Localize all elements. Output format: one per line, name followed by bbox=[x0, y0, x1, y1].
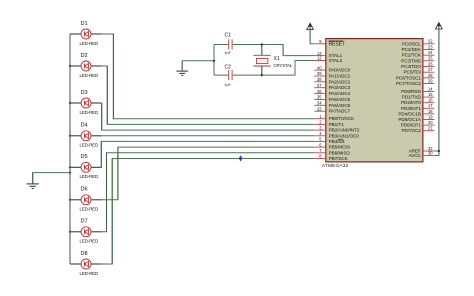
svg-text:12: 12 bbox=[317, 56, 322, 61]
pin 16 (PD2/INT0) right bbox=[401, 98, 434, 106]
svg-text:25: 25 bbox=[428, 56, 433, 61]
wire D4 to PB3 bbox=[102, 135, 314, 137]
svg-text:PC3/TMS: PC3/TMS bbox=[401, 58, 421, 63]
svg-text:4: 4 bbox=[319, 131, 322, 136]
svg-text:5: 5 bbox=[319, 137, 322, 142]
junction bus/ground bbox=[69, 172, 71, 174]
svg-text:20: 20 bbox=[428, 120, 433, 125]
svg-text:LED-RED: LED-RED bbox=[80, 110, 99, 115]
svg-text:RESET: RESET bbox=[329, 42, 345, 48]
svg-text:34: 34 bbox=[317, 101, 322, 106]
wire D1 to PB0 bbox=[102, 34, 314, 119]
svg-text:PA2/ADC2: PA2/ADC2 bbox=[329, 79, 351, 84]
svg-text:9: 9 bbox=[319, 39, 322, 44]
svg-text:PB1/T1: PB1/T1 bbox=[329, 122, 345, 127]
pin 34 (PA6/ADC6) left bbox=[314, 101, 350, 108]
svg-text:37: 37 bbox=[317, 83, 322, 88]
pin 5 (PB4/SS) left bbox=[314, 137, 344, 144]
junction bus/D5 bbox=[69, 166, 71, 168]
svg-text:PD7/OC2: PD7/OC2 bbox=[401, 128, 421, 133]
svg-text:2: 2 bbox=[319, 120, 322, 125]
svg-text:PB0/T0/XCK: PB0/T0/XCK bbox=[329, 116, 356, 121]
pin 27 (PC5/TDI) right bbox=[404, 67, 435, 75]
junction AREF/power wire bbox=[438, 150, 440, 152]
svg-text:35: 35 bbox=[317, 95, 322, 100]
pin 29 (PC7/TOSC2) right bbox=[396, 78, 435, 86]
ground (upper, near C1/C2) bbox=[176, 71, 188, 75]
svg-text:PC5/TDI: PC5/TDI bbox=[404, 70, 421, 75]
svg-text:PC6/TOSC1: PC6/TOSC1 bbox=[396, 75, 422, 80]
svg-text:PC7/TOSC2: PC7/TOSC2 bbox=[396, 81, 422, 86]
LED D4 (LED-RED) bbox=[70, 123, 102, 148]
svg-text:18: 18 bbox=[428, 109, 433, 114]
pin 30 (AVCC) right bbox=[409, 150, 435, 158]
pin 12 (XTAL2) left bbox=[314, 56, 342, 63]
pin 1 (PB0/T0/XCK) left bbox=[314, 114, 355, 121]
SS overline bbox=[338, 138, 343, 140]
wire C2 to XTAL2 bbox=[233, 61, 314, 76]
svg-text:14: 14 bbox=[428, 86, 433, 91]
wire LED anode bus (vertical, left) bbox=[69, 34, 71, 264]
svg-text:PA6/ADC6: PA6/ADC6 bbox=[329, 103, 351, 108]
wire bus to upper ground bbox=[182, 61, 214, 71]
svg-text:26: 26 bbox=[428, 61, 433, 66]
svg-text:1uF: 1uF bbox=[224, 51, 231, 55]
pin 17 (PD3/INT1) right bbox=[401, 103, 434, 111]
pin 3 (PB2/AIN0/INT2) left bbox=[314, 125, 360, 132]
junction bus/D6 bbox=[69, 199, 71, 201]
pin 35 (PA5/ADC5) left bbox=[314, 95, 350, 102]
svg-text:24: 24 bbox=[428, 50, 433, 55]
svg-text:1uF: 1uF bbox=[224, 83, 231, 87]
wire power down to AVCC bbox=[438, 26, 440, 155]
svg-text:PA0/ADC0: PA0/ADC0 bbox=[329, 68, 351, 73]
svg-text:PB2/AIN0/INT2: PB2/AIN0/INT2 bbox=[329, 128, 360, 133]
junction bus/upper ground bbox=[213, 60, 215, 62]
wire power to RESET pin bbox=[310, 27, 314, 44]
svg-text:AVCC: AVCC bbox=[409, 153, 422, 158]
svg-text:1: 1 bbox=[319, 114, 322, 119]
svg-text:22: 22 bbox=[428, 39, 433, 44]
svg-text:23: 23 bbox=[428, 44, 433, 49]
svg-text:PD6/ICP1: PD6/ICP1 bbox=[401, 123, 422, 128]
LED D3 (LED-RED) bbox=[70, 90, 102, 115]
pin 39 (PA1/ADC1) left bbox=[314, 71, 350, 78]
wire D3 to PB2 bbox=[102, 103, 315, 130]
svg-text:21: 21 bbox=[428, 126, 433, 131]
svg-text:LED-RED: LED-RED bbox=[80, 271, 99, 276]
pin 24 (PC2/TCK) right bbox=[402, 50, 435, 58]
junction bus/D3 bbox=[69, 102, 71, 104]
svg-text:8: 8 bbox=[319, 154, 322, 159]
svg-text:PA5/ADC5: PA5/ADC5 bbox=[329, 97, 351, 102]
svg-text:PB6/MISO: PB6/MISO bbox=[329, 150, 351, 155]
svg-text:D8: D8 bbox=[81, 251, 88, 257]
pin 14 (PD0/RXD) right bbox=[401, 86, 434, 94]
svg-text:PA4/ADC4: PA4/ADC4 bbox=[329, 91, 351, 96]
pin 19 (PD5/OC1A) right bbox=[398, 114, 434, 122]
LED D5 (LED-RED) bbox=[70, 154, 102, 179]
pin 22 (PC0/SCL) right bbox=[402, 39, 434, 47]
svg-text:C2: C2 bbox=[225, 64, 232, 70]
svg-text:D4: D4 bbox=[81, 123, 88, 129]
junction crystal/C1 wire bbox=[261, 43, 263, 45]
svg-text:38: 38 bbox=[317, 77, 322, 82]
junction bus/D2 bbox=[69, 65, 71, 67]
svg-text:D2: D2 bbox=[81, 53, 88, 59]
RESET overline bbox=[329, 40, 344, 42]
svg-text:PB3/AIN1/OC0: PB3/AIN1/OC0 bbox=[329, 133, 360, 138]
svg-text:PD3/INT1: PD3/INT1 bbox=[401, 106, 421, 111]
svg-text:PB4/SS: PB4/SS bbox=[329, 139, 345, 144]
svg-text:PA1/ADC1: PA1/ADC1 bbox=[329, 74, 351, 79]
wire AVCC stub bbox=[434, 155, 439, 157]
svg-text:D5: D5 bbox=[81, 154, 88, 160]
svg-text:28: 28 bbox=[428, 73, 433, 78]
pin 23 (PC1/SDA) right bbox=[401, 44, 434, 52]
pin 8 (PB7/SCK) left bbox=[314, 154, 348, 161]
svg-text:7: 7 bbox=[319, 148, 322, 153]
svg-text:36: 36 bbox=[317, 89, 322, 94]
pin 13 (XTAL1) left bbox=[314, 51, 342, 58]
svg-text:PA3/ADC3: PA3/ADC3 bbox=[329, 85, 351, 90]
svg-text:LED-RED: LED-RED bbox=[80, 143, 99, 148]
svg-text:PB7/SCK: PB7/SCK bbox=[329, 156, 349, 161]
svg-text:29: 29 bbox=[428, 78, 433, 83]
svg-text:33: 33 bbox=[317, 106, 322, 111]
wire D7 to PB6 bbox=[102, 153, 314, 232]
pin 20 (PD6/ICP1) right bbox=[401, 120, 435, 128]
svg-text:19: 19 bbox=[428, 114, 433, 119]
wire vertical segments overdraw bbox=[33, 26, 439, 264]
svg-text:PC2/TCK: PC2/TCK bbox=[402, 53, 422, 58]
svg-text:XTAL2: XTAL2 bbox=[329, 58, 343, 63]
LED D7 (LED-RED) bbox=[70, 219, 102, 244]
svg-text:39: 39 bbox=[317, 71, 322, 76]
wire C1/C2 left bus bbox=[213, 45, 215, 76]
pin 40 (PA0/ADC0) left bbox=[314, 65, 350, 72]
LED D6 (LED-RED) bbox=[70, 187, 102, 212]
LED D1 (LED-RED) bbox=[70, 21, 102, 46]
svg-text:LED-RED: LED-RED bbox=[80, 239, 99, 244]
svg-text:PC0/SCL: PC0/SCL bbox=[402, 41, 421, 46]
svg-text:ATMEGA32: ATMEGA32 bbox=[322, 163, 349, 169]
MCU U1 ATMEGA32 body bbox=[326, 39, 423, 162]
wire AREF stub bbox=[434, 150, 439, 152]
pin 28 (PC6/TOSC1) right bbox=[396, 73, 435, 81]
svg-text:LED-RED: LED-RED bbox=[80, 174, 99, 179]
svg-text:D3: D3 bbox=[81, 90, 88, 96]
svg-text:PD4/OC1B: PD4/OC1B bbox=[398, 111, 420, 116]
pin 26 (PC4/TDO) right bbox=[401, 61, 434, 69]
pin 25 (PC3/TMS) right bbox=[401, 56, 434, 64]
pin 6 (PB5/MOSI) left bbox=[314, 142, 350, 149]
pin 37 (PA3/ADC3) left bbox=[314, 83, 350, 90]
svg-text:LED-RED: LED-RED bbox=[80, 207, 99, 212]
LED D2 (LED-RED) bbox=[70, 53, 102, 78]
svg-text:15: 15 bbox=[428, 92, 433, 97]
pin 33 (PA7/ADC7) left bbox=[314, 106, 350, 113]
svg-text:6: 6 bbox=[319, 142, 322, 147]
pin 21 (PD7/OC2) right bbox=[401, 126, 434, 134]
ground (left) bbox=[27, 184, 39, 189]
svg-text:LED-RED: LED-RED bbox=[80, 73, 99, 78]
svg-text:3: 3 bbox=[319, 125, 322, 130]
svg-text:PC4/TDO: PC4/TDO bbox=[401, 64, 421, 69]
svg-text:30: 30 bbox=[428, 150, 433, 155]
pin 36 (PA4/ADC4) left bbox=[314, 89, 350, 96]
pin 9 (RESET) left bbox=[314, 39, 345, 48]
pin 15 (PD1/TXD) right bbox=[402, 92, 435, 100]
junction crystal/C2 wire bbox=[261, 74, 263, 76]
junction bus/D7 bbox=[69, 231, 71, 233]
svg-text:16: 16 bbox=[428, 98, 433, 103]
wire D2 to PB1 bbox=[102, 66, 314, 124]
capacitor C1 1uF bbox=[224, 32, 232, 55]
pin 38 (PA2/ADC2) left bbox=[314, 77, 350, 84]
svg-text:40: 40 bbox=[317, 65, 322, 70]
pin 4 (PB3/AIN1/OC0) left bbox=[314, 131, 359, 138]
svg-text:17: 17 bbox=[428, 103, 433, 108]
junction bus/D4 bbox=[69, 135, 71, 137]
svg-text:PD1/TXD: PD1/TXD bbox=[402, 95, 422, 100]
crystal X1 bbox=[253, 45, 293, 76]
svg-text:PC1/SDA: PC1/SDA bbox=[401, 47, 421, 52]
svg-text:LED-RED: LED-RED bbox=[80, 41, 99, 46]
LED D8 (LED-RED) bbox=[70, 251, 102, 276]
svg-text:D6: D6 bbox=[81, 187, 88, 193]
svg-text:PD0/RXD: PD0/RXD bbox=[401, 89, 421, 94]
wire D5 to PB4 bbox=[101, 141, 314, 167]
svg-text:27: 27 bbox=[428, 67, 433, 72]
origin marker (blue diamond) bbox=[239, 155, 243, 161]
power symbol (RESET pull-up) bbox=[307, 23, 314, 29]
power symbol (AVCC) bbox=[436, 23, 443, 29]
wire D8 to PB7 bbox=[102, 159, 314, 265]
svg-text:PB5/MOSI: PB5/MOSI bbox=[329, 145, 350, 150]
capacitor C2 1uF bbox=[224, 64, 232, 86]
svg-text:D7: D7 bbox=[81, 219, 88, 225]
wire bus to C1 bbox=[214, 44, 228, 46]
svg-text:C1: C1 bbox=[225, 32, 232, 38]
pin 2 (PB1/T1) left bbox=[314, 120, 344, 127]
svg-text:D1: D1 bbox=[81, 21, 88, 27]
pin 32 (AREF) right bbox=[409, 146, 435, 154]
svg-text:X1: X1 bbox=[274, 56, 280, 62]
wire bus to C2 bbox=[214, 74, 228, 76]
wire D6 to PB5 bbox=[102, 147, 314, 200]
wire C1 to XTAL1 bbox=[233, 45, 314, 56]
svg-text:CRYSTAL: CRYSTAL bbox=[274, 63, 293, 68]
svg-text:PD2/INT0: PD2/INT0 bbox=[401, 100, 421, 105]
wire bus to ground bbox=[33, 173, 70, 184]
svg-text:PD5/OC1A: PD5/OC1A bbox=[398, 117, 421, 122]
pin 18 (PD4/OC1B) right bbox=[398, 109, 434, 117]
pin 7 (PB6/MISO) left bbox=[314, 148, 350, 155]
svg-text:PA7/ADC7: PA7/ADC7 bbox=[329, 109, 351, 114]
